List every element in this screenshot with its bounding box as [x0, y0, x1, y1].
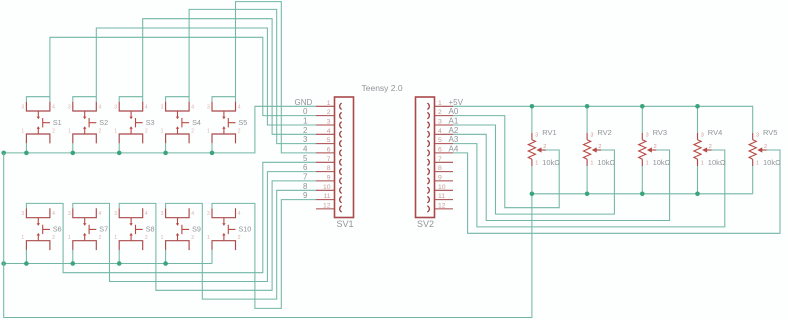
svg-text:4: 4 — [191, 104, 194, 110]
svg-text:11: 11 — [438, 193, 445, 200]
junction +5V rail / RV1 — [530, 104, 535, 109]
svg-text:1: 1 — [161, 128, 164, 134]
svg-text:10kΩ: 10kΩ — [763, 158, 781, 167]
wire net A3 from SV2 pin 5 to RV4 wiper — [453, 144, 725, 227]
wire GND drop S7 pin 1 — [72, 250, 74, 264]
svg-text:3: 3 — [756, 133, 759, 139]
net label 4 at SV1 pin 6 — [303, 145, 308, 154]
svg-text:7: 7 — [303, 173, 308, 182]
net label GND at SV1 pin 1 — [295, 98, 313, 107]
header SV1 — [316, 97, 354, 229]
svg-text:1: 1 — [114, 128, 117, 134]
svg-text:1: 1 — [161, 235, 164, 241]
svg-text:4: 4 — [52, 104, 55, 110]
svg-text:3: 3 — [207, 211, 210, 217]
wire net A4 from SV2 pin 6 to RV5 wiper — [453, 150, 780, 233]
wire +5V drop to RV4 — [697, 106, 699, 133]
svg-text:4: 4 — [99, 104, 102, 110]
svg-text:0: 0 — [303, 107, 308, 116]
svg-text:1: 1 — [68, 128, 71, 134]
svg-text:2: 2 — [598, 144, 601, 150]
svg-text:8: 8 — [303, 182, 308, 191]
svg-text:12: 12 — [323, 203, 331, 210]
svg-text:3: 3 — [68, 104, 71, 110]
svg-text:5: 5 — [303, 154, 308, 163]
svg-text:S2: S2 — [99, 118, 108, 127]
svg-text:2: 2 — [654, 144, 657, 150]
svg-text:2: 2 — [238, 235, 241, 241]
svg-text:5: 5 — [438, 137, 442, 144]
switch S2 — [68, 102, 108, 144]
junction GND bus1 / S1 — [24, 151, 29, 156]
net label 2 at SV1 pin 4 — [303, 126, 308, 135]
wire +5V drop to RV2 — [586, 106, 588, 133]
wire +5V drop to RV1 — [531, 106, 533, 133]
svg-text:S5: S5 — [239, 118, 248, 127]
svg-text:1: 1 — [535, 161, 538, 167]
svg-text:2: 2 — [327, 109, 331, 116]
junction GND bus2 / S7 — [71, 261, 76, 266]
svg-text:3: 3 — [327, 119, 331, 126]
switch S6 — [21, 208, 61, 250]
svg-text:SV2: SV2 — [417, 219, 434, 229]
wire net 2 switch S3 top bridge — [119, 97, 143, 102]
svg-text:10: 10 — [438, 184, 446, 191]
svg-text:4: 4 — [438, 128, 442, 135]
svg-text:S9: S9 — [192, 225, 201, 234]
svg-text:+5V: +5V — [449, 98, 464, 107]
junction GND bus2 / S9 — [163, 261, 168, 266]
svg-text:3: 3 — [68, 211, 71, 217]
wire net 6 from S7 to SV1 pin 8 — [73, 172, 316, 282]
svg-text:7: 7 — [327, 156, 331, 163]
svg-text:2: 2 — [709, 144, 712, 150]
wire GND bus1 to SV1 pin 1 — [4, 106, 316, 153]
svg-text:6: 6 — [303, 163, 308, 172]
switch S4 — [161, 102, 201, 144]
svg-text:1: 1 — [646, 161, 649, 167]
svg-text:10kΩ: 10kΩ — [597, 158, 615, 167]
wire +5V drop to RV3 — [641, 106, 643, 133]
svg-text:3: 3 — [701, 133, 704, 139]
svg-text:8: 8 — [327, 165, 331, 172]
junction pot GND bus / RV2 — [585, 192, 590, 197]
junction GND bus1 / left rail — [1, 151, 6, 156]
svg-text:RV1: RV1 — [542, 128, 556, 137]
svg-text:SV1: SV1 — [337, 219, 354, 229]
wire net 4 switch S5 top bridge — [212, 97, 236, 102]
net label 8 at SV1 pin 10 — [303, 182, 308, 191]
svg-text:Teensy 2.0: Teensy 2.0 — [362, 83, 403, 93]
junction GND bus2 / left rail — [1, 261, 6, 266]
svg-text:2: 2 — [191, 235, 194, 241]
svg-text:3: 3 — [114, 104, 117, 110]
potentiometer RV3 — [639, 128, 671, 167]
svg-text:9: 9 — [438, 175, 442, 182]
svg-text:9: 9 — [327, 175, 331, 182]
potentiometer RV5 — [749, 128, 781, 167]
wire net A2 from SV2 pin 4 to RV3 wiper — [453, 134, 670, 220]
svg-text:1: 1 — [701, 161, 704, 167]
svg-text:2: 2 — [764, 144, 767, 150]
svg-text:3: 3 — [590, 133, 593, 139]
svg-text:4: 4 — [238, 104, 241, 110]
wire GND bus2 — [4, 263, 212, 265]
svg-text:3: 3 — [161, 104, 164, 110]
junction +5V rail / RV4 — [695, 104, 700, 109]
svg-text:4: 4 — [327, 128, 331, 135]
switch S1 — [21, 102, 61, 144]
svg-text:1: 1 — [756, 161, 759, 167]
wire GND drop S5 pin 1 — [211, 143, 213, 153]
svg-text:3: 3 — [207, 104, 210, 110]
svg-text:S8: S8 — [146, 225, 155, 234]
svg-text:1: 1 — [438, 100, 442, 107]
wire GND drop S1 pin 1 — [25, 143, 27, 153]
wire net 7 from S8 to SV1 pin 9 — [119, 181, 316, 290]
net label A2 at SV2 pin 4 — [449, 126, 459, 135]
wire net A0 from SV2 pin 2 to RV1 wiper — [453, 116, 559, 208]
switch S9 — [161, 208, 201, 250]
svg-text:3: 3 — [114, 211, 117, 217]
potentiometer RV2 — [584, 128, 616, 167]
svg-text:4: 4 — [145, 104, 148, 110]
net label A1 at SV2 pin 3 — [449, 117, 459, 126]
svg-text:7: 7 — [438, 156, 442, 163]
wire net 0 from S1 to SV1 pin 2 — [50, 37, 316, 115]
junction GND bus2 / S8 — [117, 261, 122, 266]
net label A0 at SV2 pin 2 — [449, 107, 459, 116]
svg-text:3: 3 — [646, 133, 649, 139]
svg-text:S10: S10 — [239, 225, 252, 234]
net label 5 at SV1 pin 7 — [303, 154, 308, 163]
svg-text:RV4: RV4 — [708, 128, 722, 137]
svg-text:2: 2 — [303, 126, 308, 135]
wire GND drop S9 pin 1 — [165, 250, 167, 264]
svg-text:S6: S6 — [53, 225, 62, 234]
wire net 1 switch S2 top bridge — [73, 97, 97, 102]
svg-text:3: 3 — [438, 119, 442, 126]
potentiometer RV1 — [528, 128, 560, 167]
svg-text:4: 4 — [99, 211, 102, 217]
junction pot GND bus / RV3 — [640, 192, 645, 197]
svg-text:10kΩ: 10kΩ — [708, 158, 726, 167]
junction +5V rail / RV2 — [585, 104, 590, 109]
svg-text:1: 1 — [327, 100, 331, 107]
net label 9 at SV1 pin 11 — [303, 191, 308, 200]
wire GND bus under pots — [532, 193, 753, 195]
svg-text:4: 4 — [145, 211, 148, 217]
switch S7 — [68, 208, 108, 250]
svg-text:S4: S4 — [192, 118, 201, 127]
junction GND bus2 / S6 — [24, 261, 29, 266]
svg-text:2: 2 — [145, 235, 148, 241]
svg-text:2: 2 — [145, 128, 148, 134]
net label A3 at SV2 pin 5 — [449, 135, 459, 144]
svg-text:1: 1 — [21, 235, 24, 241]
svg-text:A2: A2 — [449, 126, 459, 135]
junction GND bus1 / S3 — [117, 151, 122, 156]
wire GND drop S3 pin 1 — [118, 143, 120, 153]
switch S8 — [114, 208, 154, 250]
wire net 3 switch S4 top bridge — [166, 97, 190, 102]
svg-text:A0: A0 — [449, 107, 459, 116]
junction +5V rail / RV3 — [640, 104, 645, 109]
svg-text:3: 3 — [303, 135, 308, 144]
svg-text:4: 4 — [238, 211, 241, 217]
net label 6 at SV1 pin 8 — [303, 163, 308, 172]
junction GND bus1 / S5 — [210, 151, 215, 156]
net label +5V at SV2 pin 1 — [449, 98, 464, 107]
svg-text:RV3: RV3 — [653, 128, 667, 137]
svg-text:12: 12 — [438, 203, 446, 210]
header SV2 — [416, 97, 454, 229]
wire GND drop RV1 pin 1 — [531, 166, 533, 194]
svg-text:11: 11 — [323, 193, 330, 200]
svg-text:S7: S7 — [99, 225, 108, 234]
svg-text:1: 1 — [21, 128, 24, 134]
svg-text:2: 2 — [52, 128, 55, 134]
svg-text:RV2: RV2 — [597, 128, 611, 137]
switch S3 — [114, 102, 154, 144]
svg-text:2: 2 — [238, 128, 241, 134]
net label 7 at SV1 pin 9 — [303, 173, 308, 182]
potentiometer RV4 — [694, 128, 726, 167]
wire net 9 from S10 to SV1 pin 11 — [212, 200, 316, 309]
wire net 5 from S6 to SV1 pin 7 — [26, 162, 316, 272]
svg-text:10kΩ: 10kΩ — [653, 158, 671, 167]
wire +5V rail from SV2 pin 1 — [453, 106, 753, 133]
svg-text:1: 1 — [207, 128, 210, 134]
svg-text:5: 5 — [327, 137, 331, 144]
svg-text:RV5: RV5 — [763, 128, 777, 137]
wire net 3 from S4 to SV1 pin 5 — [189, 9, 316, 143]
svg-text:9: 9 — [303, 191, 308, 200]
svg-text:S3: S3 — [146, 118, 155, 127]
wire GND drop S10 pin 1 — [211, 250, 213, 264]
svg-text:8: 8 — [438, 165, 442, 172]
svg-text:2: 2 — [191, 128, 194, 134]
net label 3 at SV1 pin 5 — [303, 135, 308, 144]
wire net 0 switch S1 top bridge — [26, 97, 50, 102]
wire GND drop RV3 pin 1 — [641, 166, 643, 194]
wire net 8 from S9 to SV1 pin 10 — [166, 190, 316, 299]
svg-text:2: 2 — [52, 235, 55, 241]
svg-text:1: 1 — [68, 235, 71, 241]
svg-text:2: 2 — [438, 109, 442, 116]
svg-text:3: 3 — [161, 211, 164, 217]
svg-text:3: 3 — [535, 133, 538, 139]
junction GND bus1 / S4 — [163, 151, 168, 156]
svg-text:A3: A3 — [449, 135, 459, 144]
svg-text:S1: S1 — [53, 118, 62, 127]
net label 0 at SV1 pin 2 — [303, 107, 308, 116]
svg-text:10kΩ: 10kΩ — [542, 158, 560, 167]
svg-text:A1: A1 — [449, 117, 459, 126]
wire GND left rail and bottom run to pots — [4, 153, 532, 318]
svg-text:4: 4 — [52, 211, 55, 217]
label Teensy 2.0 — [362, 83, 403, 93]
wire GND drop S2 pin 1 — [72, 143, 74, 153]
wire GND drop RV4 pin 1 — [697, 166, 699, 194]
junction GND bus1 / S2 — [71, 151, 76, 156]
wire net 2 from S3 to SV1 pin 4 — [143, 19, 316, 135]
svg-text:3: 3 — [21, 211, 24, 217]
net label 1 at SV1 pin 3 — [303, 117, 308, 126]
wire GND drop S6 pin 1 — [25, 250, 27, 264]
net label A4 at SV2 pin 6 — [449, 145, 459, 154]
junction pot GND bus / RV4 — [695, 192, 700, 197]
svg-text:2: 2 — [99, 128, 102, 134]
svg-text:2: 2 — [99, 235, 102, 241]
svg-text:6: 6 — [327, 147, 331, 154]
svg-text:2: 2 — [543, 144, 546, 150]
wire net 1 from S2 to SV1 pin 3 — [96, 28, 316, 125]
svg-text:3: 3 — [21, 104, 24, 110]
svg-text:1: 1 — [114, 235, 117, 241]
svg-text:4: 4 — [191, 211, 194, 217]
svg-text:1: 1 — [207, 235, 210, 241]
junction pot GND bus / RV1 — [530, 192, 535, 197]
svg-text:6: 6 — [438, 147, 442, 154]
wire net 4 from S5 to SV1 pin 6 — [236, 2, 317, 153]
wire GND drop RV5 pin 1 — [752, 166, 754, 194]
svg-text:10: 10 — [323, 184, 331, 191]
switch S5 — [207, 102, 247, 144]
svg-text:1: 1 — [590, 161, 593, 167]
svg-text:A4: A4 — [449, 145, 459, 154]
svg-text:4: 4 — [303, 145, 308, 154]
switch S10 — [207, 208, 251, 250]
wire GND drop S4 pin 1 — [165, 143, 167, 153]
svg-text:1: 1 — [303, 117, 308, 126]
wire GND drop RV2 pin 1 — [586, 166, 588, 194]
wire net A1 from SV2 pin 3 to RV2 wiper — [453, 125, 614, 214]
wire GND drop S8 pin 1 — [118, 250, 120, 264]
svg-text:GND: GND — [295, 98, 313, 107]
